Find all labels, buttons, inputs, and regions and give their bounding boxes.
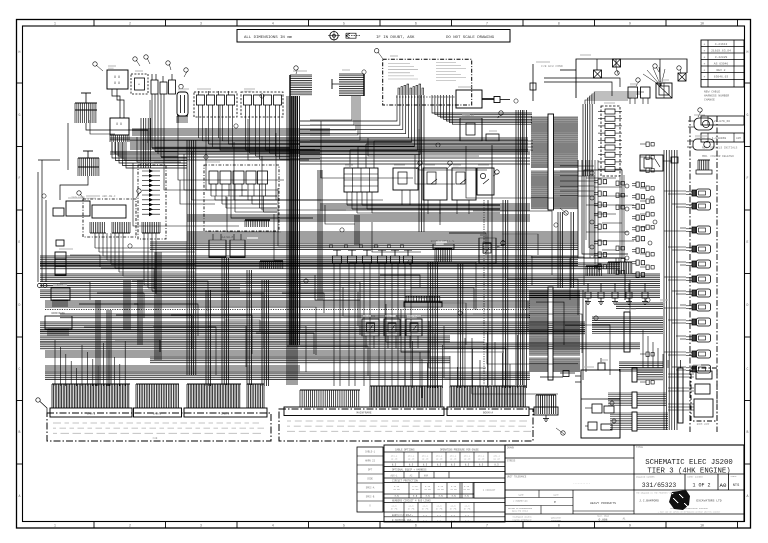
svg-text:19 40: 19 40 xyxy=(450,458,457,461)
svg-text:DO NOT SCALE DRAWING: DO NOT SCALE DRAWING xyxy=(446,36,495,40)
connecting risers to bottom connectors left xyxy=(55,340,125,386)
step wire cascade mid-left xyxy=(60,282,360,372)
svg-text:NAME: NAME xyxy=(518,493,524,496)
svg-text:CAB/1: CAB/1 xyxy=(87,412,96,416)
svg-text:4.2: 4.2 xyxy=(451,519,456,522)
wire bus band y203 xyxy=(320,204,530,210)
comb wires into harness2 strip B xyxy=(450,386,526,407)
ECU connector comb block 3 xyxy=(529,291,580,355)
ignition connector square 2 xyxy=(613,59,621,67)
right column sensors stack xyxy=(686,189,711,373)
fuse box F2 xyxy=(110,118,129,142)
wire bus band y301 with dotted xyxy=(45,301,530,310)
svg-text:o: o xyxy=(138,83,140,86)
svg-text:MOD. COLOUR DELETED: MOD. COLOUR DELETED xyxy=(702,155,734,158)
svg-text:7: 7 xyxy=(486,524,488,528)
svg-text:-----------: ----------- xyxy=(573,482,591,485)
svg-text:F: F xyxy=(19,176,21,180)
wires top-left area xyxy=(60,89,290,200)
gauge cluster connector xyxy=(431,240,455,262)
revision table xyxy=(701,40,744,158)
wire bus band y290 xyxy=(40,290,660,298)
svg-text:4-21613: 4-21613 xyxy=(715,43,728,46)
svg-text:DRAWN: DRAWN xyxy=(507,447,515,450)
balloon refs top-left xyxy=(93,55,188,77)
wire bus band y275 dense xyxy=(40,274,660,287)
scattered reference balloons xyxy=(42,70,650,320)
svg-text:DATE: DATE xyxy=(553,493,559,496)
harness1 pin label text rows xyxy=(53,423,264,433)
svg-text:HEAVY PRODUCTS: HEAVY PRODUCTS xyxy=(590,501,616,505)
balloon ECU comb xyxy=(560,208,568,215)
legend dashed box with notes xyxy=(383,59,472,105)
svg-text:15 AM: 15 AM xyxy=(412,488,419,491)
wire bus band y263 xyxy=(40,263,620,269)
harness1 bottom label xyxy=(153,437,158,440)
wire vertical at 533 xyxy=(530,64,563,101)
wire bus band y314 xyxy=(60,314,530,318)
svg-text:B: B xyxy=(19,430,21,434)
svg-text:1 CIRCUIT: 1 CIRCUIT xyxy=(483,489,496,492)
air-con compressor round component xyxy=(688,118,713,130)
svg-text:8/ FB: 8/ FB xyxy=(408,508,415,511)
wire bus band y343 xyxy=(40,343,640,349)
svg-text:8.5: 8.5 xyxy=(409,464,414,467)
svg-text:6.3: 6.3 xyxy=(423,514,428,517)
engine area interconnect wires xyxy=(560,160,598,300)
bottom strip row of title block xyxy=(505,514,626,522)
svg-text:G: G xyxy=(19,113,21,117)
balloon controller xyxy=(77,189,141,199)
comb wires into harness1 strip B xyxy=(136,384,179,408)
vertical trunk x337 switch drops xyxy=(334,272,411,386)
svg-text:STATED OTHERWISE: STATED OTHERWISE xyxy=(512,518,532,521)
svg-text:15 AM: 15 AM xyxy=(463,488,470,491)
svg-text:OPTIONAL EQUIP + HARNESS: OPTIONAL EQUIP + HARNESS xyxy=(392,468,427,471)
fan-out leader lines start area xyxy=(643,67,665,86)
vertical feeder bundle right side xyxy=(664,150,677,430)
svg-text:HARNESS NUMBER: HARNESS NUMBER xyxy=(704,95,729,98)
relay box below legend xyxy=(460,114,499,141)
wires from fuse grid xyxy=(347,141,533,213)
svg-text:4.2: 4.2 xyxy=(392,519,397,522)
vertical trunk x262 xyxy=(262,280,269,386)
vertical trunk x318 xyxy=(318,170,322,300)
svg-text:7: 7 xyxy=(486,22,488,26)
svg-text:7.5: 7.5 xyxy=(438,495,443,498)
svg-text:19 40: 19 40 xyxy=(408,458,415,461)
pressure switch PS1 xyxy=(362,315,379,348)
wires below relay groups xyxy=(199,117,321,159)
svg-text:8.5: 8.5 xyxy=(437,464,442,467)
svg-text:9: 9 xyxy=(629,22,631,26)
connector comb left C2 xyxy=(78,151,99,176)
svg-text:8.5: 8.5 xyxy=(392,464,397,467)
engine sensors group column 1 xyxy=(594,179,607,269)
svg-text:NEW CABLE: NEW CABLE xyxy=(704,91,720,94)
harness1 connector strip A xyxy=(50,408,132,417)
ECU comb side verticals xyxy=(583,290,586,380)
company cell with JCB logo xyxy=(636,492,722,514)
svg-text:TITLE: TITLE xyxy=(636,446,644,449)
svg-text:HAM: HAM xyxy=(424,474,429,477)
svg-text:J ROBERTSON: J ROBERTSON xyxy=(513,500,528,503)
vertical trunk x560 lower xyxy=(558,212,562,288)
vertical trunk x222 xyxy=(222,258,229,385)
vertical trunk from C3 xyxy=(290,96,300,345)
ignition connector squares xyxy=(594,70,602,78)
svg-text:CHANGE: CHANGE xyxy=(704,99,715,102)
vertical trunk x482 dotted pair xyxy=(484,145,492,385)
drawing number row xyxy=(636,474,739,490)
vertical trunk x138 xyxy=(138,280,142,345)
svg-text:SCALE: SCALE xyxy=(731,475,738,478)
dashed relay group box B xyxy=(241,92,283,117)
svg-text:CODE: CODE xyxy=(367,478,373,481)
svg-text:REV 2: REV 2 xyxy=(716,69,725,72)
vertical trunk x247 xyxy=(247,270,251,385)
harness1 connector strip C xyxy=(184,408,267,417)
svg-text:19 40: 19 40 xyxy=(478,458,485,461)
left small box B3 xyxy=(56,240,64,246)
title block outline xyxy=(505,445,744,522)
right column sensor feed wires xyxy=(664,191,686,370)
svg-text:OPT: OPT xyxy=(368,469,373,472)
vertical trunk x107 low xyxy=(107,310,111,386)
svg-text:C: C xyxy=(19,367,21,371)
wire bus band y336 xyxy=(40,336,450,342)
svg-text:15 AM: 15 AM xyxy=(424,488,431,491)
vertical trunk x428 gauge drops xyxy=(428,262,438,388)
wire bus band y152 xyxy=(110,152,530,154)
svg-text:19 40: 19 40 xyxy=(422,458,429,461)
wire bus right side y303 xyxy=(616,303,663,308)
wires from controller down xyxy=(95,233,240,294)
connector comb top-left with antenna xyxy=(75,93,97,123)
wires to boom harness xyxy=(668,374,694,410)
svg-text:E: E xyxy=(747,240,749,244)
svg-text:3: 3 xyxy=(200,524,202,528)
connector comb C3 horizontal xyxy=(290,75,312,96)
svg-text:CAB/3: CAB/3 xyxy=(221,412,230,416)
svg-text:1-898969: 1-898969 xyxy=(712,137,727,140)
svg-text:IF IN DOUBT, ASK: IF IN DOUBT, ASK xyxy=(376,36,415,40)
svg-text:8/ FB: 8/ FB xyxy=(436,508,443,511)
wire bus band y256 xyxy=(40,256,578,266)
fuse matrix grid xyxy=(344,168,378,192)
pressure switch PS3 xyxy=(406,315,422,348)
vertical trunk x571 xyxy=(571,212,574,288)
vertical trunk x524 xyxy=(524,110,527,388)
svg-text:DATA ETD CHILD: DATA ETD CHILD xyxy=(512,509,529,512)
svg-text:4: 4 xyxy=(272,524,274,528)
svg-text:CIRCUIT PROTECTION: CIRCUIT PROTECTION xyxy=(392,479,418,482)
harness2 connector strip B xyxy=(447,407,529,416)
fusebox F2 wire drops xyxy=(112,142,187,168)
svg-text:7.5: 7.5 xyxy=(394,495,399,498)
connector comb C4 horizontal xyxy=(339,74,364,96)
harness2 connector strip A xyxy=(284,407,444,416)
wires into junction unit top xyxy=(540,358,605,377)
svg-text:A0: A0 xyxy=(720,482,727,489)
balloon harness2 xyxy=(556,428,565,435)
wire bus band y158 short xyxy=(300,158,530,164)
vertical trunk x516 xyxy=(516,110,523,385)
svg-text:15 AM: 15 AM xyxy=(450,488,457,491)
wire bus band y138 xyxy=(110,138,528,140)
svg-text:8.5: 8.5 xyxy=(494,464,499,467)
svg-text:7.5: 7.5 xyxy=(464,495,469,498)
svg-text:H: H xyxy=(747,50,749,54)
left small box B1 xyxy=(66,197,90,217)
svg-text:8 8: 8 8 xyxy=(114,82,120,86)
wire bus band y232 xyxy=(187,232,578,240)
svg-text:8.5: 8.5 xyxy=(451,464,456,467)
cab relay bank dashed box xyxy=(204,165,279,231)
svg-text:SHEET NUMBER: SHEET NUMBER xyxy=(687,476,703,479)
svg-text:15 AM: 15 AM xyxy=(437,488,444,491)
svg-text:THE DRAWING IS THE PROPERTY OF: THE DRAWING IS THE PROPERTY OF xyxy=(636,492,673,495)
vertical trunk x287 main xyxy=(287,96,297,385)
svg-text:HARN 22: HARN 22 xyxy=(365,460,376,463)
svg-text:9: 9 xyxy=(629,524,631,528)
svg-text:BOOM/A: BOOM/A xyxy=(483,411,493,415)
step wire cascade upper center xyxy=(150,100,383,210)
comb wires into harness1 strip C xyxy=(187,384,264,408)
svg-text:EXCAVATORS LTD: EXCAVATORS LTD xyxy=(696,500,721,503)
svg-text:2: 2 xyxy=(129,524,131,528)
battery relay boxes xyxy=(628,87,650,104)
svg-text:8: 8 xyxy=(558,22,560,26)
step wire cascade extra 2 xyxy=(90,120,553,260)
title text xyxy=(645,459,733,476)
svg-text:6.3: 6.3 xyxy=(437,514,442,517)
svg-text:6.3: 6.3 xyxy=(465,514,470,517)
svg-text:C: C xyxy=(747,367,749,371)
diode ladder dashed box xyxy=(138,165,166,239)
svg-text:4.2: 4.2 xyxy=(423,519,428,522)
harness1 connector strip B xyxy=(134,408,182,417)
svg-text:F: F xyxy=(747,176,749,180)
svg-text:15 AM: 15 AM xyxy=(393,488,400,491)
svg-text:10: 10 xyxy=(700,22,704,26)
svg-text:C/B ECU CONN: C/B ECU CONN xyxy=(541,64,563,68)
wire bus band y351 xyxy=(45,351,430,357)
svg-text:19 40: 19 40 xyxy=(391,458,398,461)
title block field labels xyxy=(507,446,644,485)
ignition connector square 3 xyxy=(678,73,686,81)
options table small column xyxy=(357,447,383,512)
fuse box F1 xyxy=(107,70,128,89)
svg-text:STRESS: STRESS xyxy=(507,460,516,463)
relay bank internal wires xyxy=(211,196,277,212)
wire bus right side y362 xyxy=(619,362,663,371)
svg-text:STANDARDS: STANDARDS xyxy=(551,519,562,522)
legend connector pin row xyxy=(396,96,455,98)
svg-text:1: 1 xyxy=(54,22,56,26)
svg-text:19 40: 19 40 xyxy=(493,458,500,461)
svg-text:MASS (kg): MASS (kg) xyxy=(597,515,609,518)
svg-text:SCHEMATIC ELEC JS200: SCHEMATIC ELEC JS200 xyxy=(645,459,733,467)
svg-text:e: e xyxy=(554,500,556,504)
engine ground sensors row xyxy=(585,283,648,304)
harness dash-dot box 1 xyxy=(47,413,271,441)
vertical trunk x355 xyxy=(355,215,359,245)
wire bus right side y317-345 into bar connector xyxy=(592,312,663,352)
step wire cascade center xyxy=(300,270,578,394)
connector bar V1 bottom right xyxy=(632,368,663,382)
dashed relay box K1 xyxy=(131,74,148,94)
svg-text:331/65323: 331/65323 xyxy=(642,482,677,489)
svg-text:SPEC-B: SPEC-B xyxy=(366,496,375,499)
svg-text:A: A xyxy=(19,494,21,498)
svg-text:8.5: 8.5 xyxy=(479,464,484,467)
svg-text:4.2: 4.2 xyxy=(409,519,414,522)
wire risers bottom right area xyxy=(643,330,668,368)
wires injector top connections xyxy=(585,92,644,104)
svg-text:NTS: NTS xyxy=(733,484,739,488)
ECU connector comb block 1 xyxy=(531,117,578,167)
svg-text:G: G xyxy=(747,113,749,117)
tiny gray component labels scattered xyxy=(52,55,709,367)
antenna C4 xyxy=(332,79,339,89)
svg-text:6.3: 6.3 xyxy=(451,514,456,517)
balloons start area xyxy=(615,64,681,86)
glow plug comb xyxy=(608,262,632,274)
comb wires into harness1 strip A xyxy=(52,384,130,408)
step wire cascade extra 1 xyxy=(70,255,582,398)
controller dashed box with display xyxy=(83,195,136,237)
JCB logo blob xyxy=(669,490,690,510)
vertical trunk x458 xyxy=(458,264,463,388)
connector bar V2 bottom right xyxy=(608,392,666,408)
left tall box B4 xyxy=(55,252,66,275)
vertical trunk x503 xyxy=(503,200,508,388)
engine sensor balloons xyxy=(590,171,657,260)
ECU connector comb block 2 xyxy=(531,171,578,209)
svg-text:CABLE-1: CABLE-1 xyxy=(365,451,376,454)
harness2 pin label text rows xyxy=(287,421,531,431)
wire bus band y330 xyxy=(40,330,585,334)
svg-text:1: 1 xyxy=(54,524,56,528)
horizontal tooth bar xyxy=(260,261,283,269)
svg-text:SPEC-A: SPEC-A xyxy=(366,487,375,490)
svg-text:21619.63_04: 21619.63_04 xyxy=(711,49,731,52)
svg-text:21-879_66: 21-879_66 xyxy=(714,120,730,123)
svg-text:8/ FB: 8/ FB xyxy=(450,508,457,511)
svg-text:ALL DIMENSIONS IN mm: ALL DIMENSIONS IN mm xyxy=(244,36,293,40)
svg-text:6: 6 xyxy=(415,524,417,528)
balloon C3 xyxy=(294,66,298,74)
flasher relay center xyxy=(479,238,505,263)
svg-text:J.C.BAMFORD: J.C.BAMFORD xyxy=(639,500,659,503)
dashed relay group box A xyxy=(194,91,237,117)
start circuit wire loop xyxy=(544,59,687,98)
svg-text:CABLE OPTIONS: CABLE OPTIONS xyxy=(395,448,415,451)
balloon legend xyxy=(375,49,504,118)
svg-text:MAINFRAME: MAINFRAME xyxy=(356,412,371,415)
vertical bar connector far right xyxy=(678,360,683,423)
svg-text:NUMBERS CIRCUIT 4 BUS LINKS: NUMBERS CIRCUIT 4 BUS LINKS xyxy=(392,500,431,503)
svg-text:19 40: 19 40 xyxy=(436,458,443,461)
step wire cascade extra 3 xyxy=(420,210,630,405)
vertical trunk x96 xyxy=(96,300,100,386)
top instruction box xyxy=(237,30,510,43)
wire bus band y357 xyxy=(150,357,450,363)
legend nested U wire loops xyxy=(398,84,424,95)
wire bus band y322 xyxy=(40,322,585,332)
legend fan right-bending wires xyxy=(432,95,532,124)
svg-text:4.2: 4.2 xyxy=(465,519,470,522)
wires from C4 down xyxy=(310,96,360,140)
left margin wires and terminals xyxy=(38,160,61,288)
rocker switch row xyxy=(329,244,412,272)
svg-text:HEATER-M: HEATER-M xyxy=(221,236,234,239)
svg-text:5: 5 xyxy=(343,22,345,26)
boom harness dashed box bottom right xyxy=(691,368,717,426)
svg-text:6.3: 6.3 xyxy=(409,514,414,517)
svg-text:63046_63: 63046_63 xyxy=(714,75,729,78)
injector driver column xyxy=(598,106,622,176)
pressure switch PS2 xyxy=(384,315,400,348)
svg-text:19 40: 19 40 xyxy=(464,458,471,461)
left lower labeled box xyxy=(45,312,72,336)
legend fan left-bending wires xyxy=(300,95,420,155)
connector pair below relay bank xyxy=(209,234,245,257)
svg-text:6: 6 xyxy=(415,22,417,26)
svg-text:7.5: 7.5 xyxy=(413,495,418,498)
svg-text:E: E xyxy=(19,240,21,244)
harness dash-dot box 2 xyxy=(279,409,533,441)
relay box R1 xyxy=(393,168,418,205)
wire bus band y141 xyxy=(130,141,528,149)
svg-text:0.808: 0.808 xyxy=(598,519,607,522)
svg-text:CAB: CAB xyxy=(153,437,158,440)
small connectors left of sensor column xyxy=(640,142,654,385)
legend center drop wires xyxy=(419,95,424,232)
vertical trunk x155 xyxy=(155,252,161,360)
svg-text:8 8: 8 8 xyxy=(116,122,122,126)
svg-text:AJM: AJM xyxy=(736,137,741,140)
battery pack symbol right of harness2 xyxy=(534,395,558,421)
svg-text:8.5: 8.5 xyxy=(465,464,470,467)
relay box R4 xyxy=(477,168,494,195)
left small box B2 xyxy=(53,208,64,216)
ECU connector comb block 4 xyxy=(529,358,580,372)
svg-text:4: 4 xyxy=(272,22,274,26)
connector bar V3 bottom right xyxy=(610,412,668,431)
svg-text:DRAWING NUMBER: DRAWING NUMBER xyxy=(636,476,655,479)
svg-text:7.5: 7.5 xyxy=(425,495,430,498)
svg-text:8: 8 xyxy=(558,524,560,528)
vertical trunk x124 xyxy=(124,280,130,330)
wire bus band y242 xyxy=(150,242,578,250)
svg-text:4.2: 4.2 xyxy=(437,519,442,522)
options matrix table xyxy=(384,445,505,522)
connecting risers to bottom connectors center xyxy=(405,330,518,388)
approval cells bottom-left of title block xyxy=(505,490,634,522)
svg-text:OPERATING PRESSURE FOR GAUGE: OPERATING PRESSURE FOR GAUGE xyxy=(440,448,479,451)
balloon compressor xyxy=(698,108,702,117)
svg-text:8/ FB: 8/ FB xyxy=(422,508,429,511)
wire bus band y215 xyxy=(187,215,530,221)
svg-text:5: 5 xyxy=(343,524,345,528)
svg-text:+ MUST NOT BE COPIED OR REPROD: + MUST NOT BE COPIED OR REPRODUCED WITHO… xyxy=(658,512,721,514)
vertical trunk x187 xyxy=(187,140,196,375)
svg-text:7.5: 7.5 xyxy=(451,495,456,498)
svg-text:8 8: 8 8 xyxy=(114,76,120,80)
fan control box xyxy=(640,155,678,171)
